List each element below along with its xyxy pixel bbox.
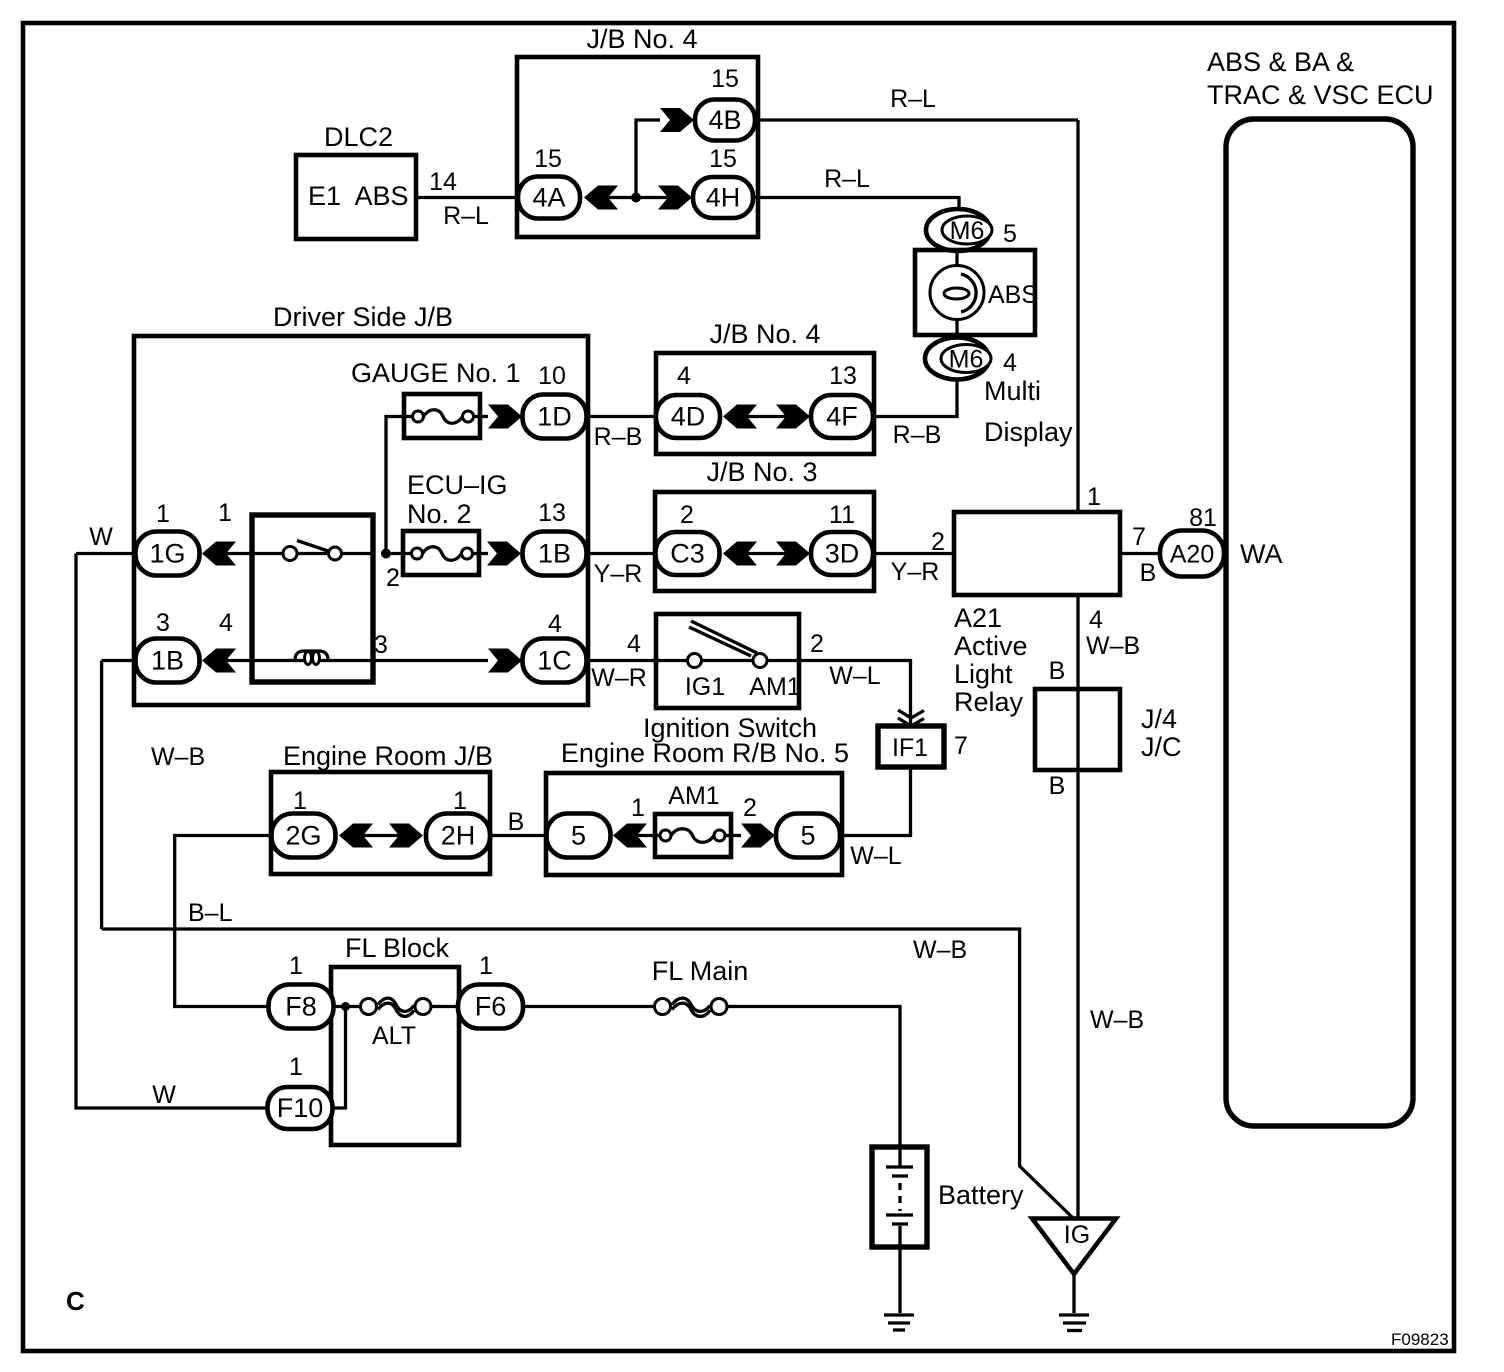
connector 3D (811, 532, 873, 575)
connector A20 (1160, 531, 1224, 577)
svg-text:1: 1 (453, 787, 467, 815)
male arrow to 3D (776, 542, 810, 566)
connector 1D (523, 395, 587, 439)
svg-text:Driver Side J/B: Driver Side J/B (273, 302, 453, 332)
svg-text:1G: 1G (149, 539, 185, 569)
svg-text:W: W (89, 523, 113, 551)
wire W-B long bottom run to IG ground (102, 929, 1073, 1218)
wire W-B J/C down to IG ground (1078, 689, 1144, 1218)
wire W 1G to left riser (76, 523, 136, 554)
svg-text:R–B: R–B (893, 421, 942, 449)
wire B-L 2G to F8 (175, 836, 272, 1007)
svg-text:A21: A21 (954, 603, 1002, 633)
male arrow to 1D (488, 405, 522, 429)
ground point IG (1032, 1219, 1116, 1275)
wire C3 to 3D (747, 552, 786, 555)
junction block Driver Side J/B (134, 302, 588, 705)
wire R-L DLC2 to 4A (416, 198, 518, 231)
female arrow at 2G (339, 824, 373, 848)
svg-text:13: 13 (829, 362, 857, 390)
svg-text:2H: 2H (441, 821, 476, 851)
wire A21 pin4 to J/4 J/C (1076, 595, 1079, 689)
fuse ECU-IG No. 2 (391, 470, 508, 575)
connector 5 (left) (547, 814, 611, 858)
svg-text:W–B: W–B (1090, 1006, 1144, 1034)
svg-text:Active: Active (954, 631, 1028, 661)
wire W-R 1C to Ignition Switch (587, 630, 657, 692)
wire R-B 1D to 4D (587, 417, 658, 452)
wire Y-R 1B to C3 (587, 554, 657, 589)
wire B A21 to A20 (1120, 523, 1160, 587)
wire F8 junction down to F10 (333, 1007, 346, 1109)
svg-text:FL Block: FL Block (345, 933, 450, 963)
svg-text:5: 5 (1003, 220, 1017, 248)
svg-text:13: 13 (538, 499, 566, 527)
junction block J/B No. 4 (top) (517, 24, 758, 237)
svg-text:4: 4 (219, 609, 233, 637)
svg-text:1B: 1B (538, 539, 571, 569)
connector IF1 (878, 726, 944, 767)
svg-text:ALT: ALT (372, 1022, 416, 1050)
svg-text:C3: C3 (670, 539, 705, 569)
svg-text:4H: 4H (706, 183, 741, 213)
svg-text:WA: WA (1240, 539, 1283, 569)
male arrow into IF1 (898, 710, 924, 726)
svg-text:W–L: W–L (829, 662, 881, 690)
relay coil (226, 651, 488, 665)
svg-text:W: W (152, 1081, 176, 1109)
svg-text:B: B (1049, 657, 1066, 685)
svg-text:1D: 1D (537, 402, 572, 432)
wire R-B M6 to 4F (873, 380, 957, 450)
connector 2H (426, 814, 490, 858)
label Multi Display (984, 376, 1073, 447)
svg-text:F8: F8 (285, 992, 317, 1022)
male arrow to 4F (776, 405, 810, 429)
connector 4A (518, 177, 580, 219)
svg-text:15: 15 (711, 65, 739, 93)
junction dot at F8 (341, 1002, 350, 1011)
svg-text:4: 4 (548, 610, 562, 638)
svg-text:1: 1 (479, 952, 493, 980)
svg-text:4: 4 (1089, 606, 1103, 634)
svg-text:GAUGE No. 1: GAUGE No. 1 (351, 358, 521, 388)
svg-text:F10: F10 (277, 1093, 324, 1123)
connector 1C (523, 639, 587, 683)
wire W-B riser down (100, 661, 103, 930)
svg-text:15: 15 (709, 145, 737, 173)
svg-text:Display: Display (984, 417, 1073, 447)
svg-text:10: 10 (538, 362, 566, 390)
wire 2G to 2H (363, 834, 399, 837)
svg-text:15: 15 (534, 145, 562, 173)
wire FL Main to Battery (727, 1007, 900, 1148)
svg-text:3: 3 (156, 609, 170, 637)
connector M6 pin 5 (926, 209, 992, 251)
svg-text:FL Main: FL Main (652, 956, 749, 986)
svg-text:Y–R: Y–R (594, 560, 643, 588)
female arrow at C3 (723, 542, 757, 566)
male arrow to 4H (658, 186, 692, 210)
male arrow to 4B (660, 108, 694, 132)
fuse AM1 (637, 782, 741, 857)
male arrow to 2H (389, 824, 423, 848)
svg-text:Engine Room J/B: Engine Room J/B (283, 741, 493, 771)
fuse GAUGE No. 1 (351, 358, 521, 438)
svg-text:W–B: W–B (913, 936, 967, 964)
node 2 junction dot (381, 549, 400, 593)
svg-text:4: 4 (627, 630, 641, 658)
svg-text:4: 4 (1003, 349, 1017, 377)
svg-text:B–L: B–L (188, 899, 233, 927)
svg-text:11: 11 (829, 501, 855, 529)
svg-text:14: 14 (429, 168, 457, 196)
svg-text:M6: M6 (949, 346, 984, 374)
connector 1G (136, 532, 200, 576)
wire 4D to 4F (747, 415, 786, 418)
svg-text:4F: 4F (826, 402, 858, 432)
svg-text:B: B (508, 808, 525, 836)
svg-text:AM1: AM1 (749, 673, 800, 701)
svg-text:5: 5 (800, 821, 815, 851)
female arrow at 5 (613, 824, 647, 848)
battery (872, 1147, 1024, 1313)
svg-text:DLC2: DLC2 (324, 122, 393, 152)
switch Ignition Switch (643, 614, 817, 743)
junction block J/B No. 3 (655, 457, 874, 591)
male arrow to 1C (488, 649, 522, 673)
wire B 2H to R/B No.5 (490, 808, 547, 836)
wire junction up to GAUGE fuse (386, 417, 404, 554)
wire Y-R 3D to A21 (873, 528, 954, 586)
svg-text:R–L: R–L (890, 85, 936, 113)
svg-text:4: 4 (677, 362, 691, 390)
svg-text:4D: 4D (671, 402, 706, 432)
connector 4B (695, 100, 755, 141)
wire R-L 4B to main vertical (755, 85, 1078, 120)
svg-text:W–B: W–B (1086, 632, 1140, 660)
svg-text:4A: 4A (532, 183, 565, 213)
svg-text:1: 1 (289, 1053, 303, 1081)
relay A21 Active Light Relay (954, 512, 1120, 717)
svg-text:R–L: R–L (824, 165, 870, 193)
svg-text:Relay: Relay (954, 687, 1024, 717)
female arrow at 4D (723, 405, 757, 429)
connector F10 (268, 1087, 333, 1129)
svg-text:C: C (66, 1286, 85, 1316)
svg-text:2: 2 (743, 794, 757, 822)
svg-text:TRAC & VSC ECU: TRAC & VSC ECU (1207, 80, 1434, 110)
main vertical wire to A21 pin 1 (1076, 120, 1079, 512)
svg-text:ABS & BA &: ABS & BA & (1207, 47, 1354, 77)
svg-text:2G: 2G (285, 821, 321, 851)
svg-text:1: 1 (289, 952, 303, 980)
connector 2G (272, 814, 336, 858)
junction block Engine Room J/B (271, 741, 493, 874)
svg-text:7: 7 (1132, 523, 1146, 551)
svg-text:A20: A20 (1170, 541, 1214, 569)
junction dot in J/B No.4 (631, 193, 641, 203)
svg-text:Light: Light (954, 659, 1013, 689)
connector 5 (right) (776, 814, 840, 858)
male arrow to 5 (741, 824, 775, 848)
svg-text:Multi: Multi (984, 376, 1041, 406)
svg-text:ECU–IG: ECU–IG (407, 470, 508, 500)
male arrow to 1B (487, 542, 521, 566)
svg-text:R–B: R–B (594, 423, 643, 451)
svg-text:4B: 4B (708, 105, 741, 135)
svg-text:AM1: AM1 (668, 782, 719, 810)
svg-text:1: 1 (1087, 483, 1101, 511)
svg-text:IG: IG (1064, 1221, 1090, 1249)
ground (battery) (884, 1315, 914, 1330)
fuse FL Main (652, 956, 749, 1016)
svg-text:W–L: W–L (850, 842, 902, 870)
svg-text:1: 1 (156, 500, 170, 528)
svg-text:E1 ABS: E1 ABS (308, 181, 409, 211)
female arrow at 4A (584, 186, 618, 210)
svg-text:5: 5 (571, 821, 586, 851)
svg-text:J/C: J/C (1141, 732, 1182, 762)
connector 1B (output) (523, 532, 587, 576)
svg-text:W–B: W–B (151, 743, 205, 771)
svg-text:J/B No. 3: J/B No. 3 (706, 457, 817, 487)
svg-text:3D: 3D (825, 539, 860, 569)
svg-text:IF1: IF1 (892, 734, 928, 762)
svg-text:R–L: R–L (443, 202, 489, 230)
svg-text:1: 1 (631, 794, 645, 822)
svg-text:Battery: Battery (938, 1180, 1024, 1210)
junction block J/B No. 4 (middle) (656, 319, 874, 454)
svg-text:7: 7 (954, 732, 968, 760)
connector 1B (136, 639, 200, 683)
relay in Driver Side J/B (226, 515, 373, 682)
svg-text:M6: M6 (950, 217, 985, 245)
svg-text:2: 2 (386, 564, 400, 592)
svg-text:Y–R: Y–R (891, 558, 940, 586)
svg-text:ABS: ABS (988, 281, 1038, 309)
svg-text:No. 2: No. 2 (407, 499, 472, 529)
svg-text:J/B No. 4: J/B No. 4 (709, 319, 820, 349)
fusible link block FL Block (331, 933, 459, 1145)
female arrow at 1B (202, 649, 236, 673)
svg-text:IG1: IG1 (685, 673, 725, 701)
svg-text:1: 1 (218, 499, 232, 527)
ABS warning lamp box (915, 250, 1038, 335)
wire F6 to FL Main (523, 1005, 657, 1008)
wire W-L IF1 down to R/B 5 (840, 767, 911, 870)
junction connector J/4 J/C (1035, 689, 1182, 770)
wire 4A to junction (608, 196, 668, 199)
connector DLC2 (296, 122, 416, 239)
wire junction up to 4B branch (636, 120, 660, 198)
svg-text:1C: 1C (537, 646, 572, 676)
wire W-B 1B to left riser (102, 661, 206, 772)
ECU ABS & BA & TRAC & VSC ECU (1207, 47, 1434, 1126)
relay block Engine Room R/B No. 5 (546, 738, 849, 875)
svg-text:W–R: W–R (591, 664, 647, 692)
svg-text:F09823: F09823 (1391, 1330, 1449, 1349)
connector 4H (693, 177, 753, 218)
fusible link ALT (334, 998, 459, 1050)
svg-text:F6: F6 (475, 992, 507, 1022)
wire IG to ground (1072, 1274, 1075, 1313)
svg-text:Engine Room R/B No. 5: Engine Room R/B No. 5 (561, 738, 849, 768)
connector F6 (458, 985, 523, 1029)
svg-text:1: 1 (293, 787, 307, 815)
wire W riser down to F10 (76, 554, 268, 1109)
svg-text:2: 2 (931, 528, 945, 556)
svg-text:2: 2 (680, 501, 694, 529)
svg-text:J/B No. 4: J/B No. 4 (586, 24, 697, 54)
svg-text:1B: 1B (151, 646, 184, 676)
connector M6 pin 4 (925, 338, 991, 380)
connector 4F (811, 395, 873, 438)
svg-text:J/4: J/4 (1141, 704, 1177, 734)
svg-text:3: 3 (374, 631, 388, 659)
ground (IG) (1059, 1315, 1089, 1331)
wire R-L 4H to M6 (753, 165, 959, 210)
connector 4D (656, 395, 720, 438)
svg-text:B: B (1140, 559, 1157, 587)
connector C3 (656, 532, 720, 575)
svg-text:B: B (1049, 772, 1066, 800)
svg-text:2: 2 (810, 630, 824, 658)
wire W-L ignition to IF1 (799, 661, 911, 727)
connector F8 (269, 985, 334, 1029)
female arrow at 1G (202, 542, 236, 566)
svg-text:81: 81 (1189, 504, 1217, 532)
